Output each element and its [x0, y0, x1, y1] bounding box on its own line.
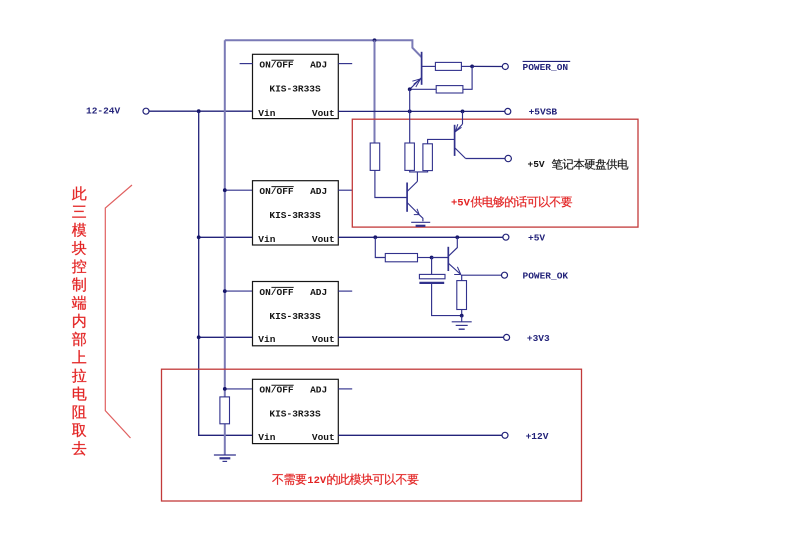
wire rail A branch to U3 Vin — [199, 336, 253, 338]
svg-text:12V: 12V — [307, 475, 327, 487]
junction +5VSB / Q1 collector — [408, 110, 412, 114]
svg-text:ON/OFF: ON/OFF — [259, 385, 294, 396]
svg-text:Vin: Vin — [258, 108, 275, 119]
svg-text:POWER_ON: POWER_ON — [523, 62, 569, 73]
svg-text:Vin: Vin — [258, 334, 275, 345]
junction R8 bottom / ground — [460, 314, 464, 318]
wire POWER_ON junction down to R2 — [463, 66, 472, 89]
transistor Q4 NPN — [448, 237, 461, 274]
wire R8 stubs — [461, 275, 463, 280]
ground below R6 — [214, 455, 236, 461]
svg-text:Vin: Vin — [258, 432, 275, 443]
resistor R8 emitter load — [457, 281, 467, 310]
resistor R3 (left, to Q3 base) — [370, 143, 380, 170]
svg-text:ON/OFF: ON/OFF — [259, 186, 294, 197]
terminal POWER_ON — [502, 64, 508, 70]
svg-text:ON/OFF: ON/OFF — [259, 60, 294, 71]
svg-text:ADJ: ADJ — [310, 186, 327, 197]
svg-text:KIS-3R33S: KIS-3R33S — [269, 409, 321, 420]
wire +3V3 net U3 Vout to terminal — [338, 336, 503, 338]
terminal POWER_OK — [502, 272, 508, 278]
wire branch down to resistor R1 — [374, 40, 376, 143]
svg-text:ON/OFF: ON/OFF — [259, 287, 294, 298]
op-amp module U1 KIS-3R33S — [253, 54, 339, 119]
wire top rail to transistor Q1 — [225, 40, 422, 57]
junction Q4 base node — [430, 256, 434, 260]
svg-text:ADJ: ADJ — [310, 385, 327, 396]
pin ON/OFF stub U1 — [240, 63, 253, 65]
wire rail A branch to U2 Vin — [199, 236, 253, 238]
junction +5V / R7 branch — [373, 235, 377, 239]
svg-text:Vin: Vin — [258, 234, 275, 245]
junction rail B / U2 ON/OFF — [223, 188, 227, 192]
svg-text:Vout: Vout — [312, 108, 335, 119]
op-amp module U4 KIS-3R33S — [253, 379, 339, 443]
svg-text:+3V3: +3V3 — [527, 333, 550, 344]
wire rail B branch to U2 ON/OFF — [225, 189, 253, 191]
junction rail B / U4 ON/OFF — [223, 387, 227, 391]
svg-text:KIS-3R33S: KIS-3R33S — [269, 311, 321, 322]
svg-text:+5VSB: +5VSB — [529, 106, 558, 117]
value label 不需要12V的此模块可以不要 (red note) — [272, 474, 283, 485]
junction rail B / U3 ON/OFF — [223, 289, 227, 293]
resistor R6 pull-down on ON/OFF bus — [220, 397, 230, 424]
transistor Q1 PNP — [410, 52, 436, 90]
junction +5V / Q4 collector — [455, 235, 459, 239]
op-amp module U2 KIS-3R33S — [253, 181, 339, 245]
svg-text:Vout: Vout — [312, 234, 335, 245]
terminal +5V notebook HD — [505, 155, 511, 161]
value label 此三模块控制端内部上拉电阻取去 (red vertical note) — [72, 186, 87, 200]
junction +5VSB / Q2 emitter — [461, 110, 465, 114]
resistor R2 feedback — [436, 86, 463, 93]
svg-text:+5V: +5V — [451, 198, 471, 210]
wire +5V down to R7 — [375, 237, 385, 257]
ground POWER_OK divider — [452, 316, 472, 330]
junction top rail / R1 branch — [373, 38, 377, 42]
junction input rail A — [197, 109, 201, 113]
wire input to Vin of module U1 — [149, 110, 252, 112]
junction POWER_ON node — [470, 65, 474, 69]
svg-text:ADJ: ADJ — [310, 287, 327, 298]
resistor R5 (right, Q2 base) — [423, 144, 433, 171]
pin ADJ stub U4 — [338, 388, 352, 390]
transistor Q3 NPN — [407, 183, 419, 215]
terminal +5VSB — [505, 108, 511, 114]
wire rail A vertical Vin bus — [199, 111, 253, 435]
wire rail B ON/OFF bus vertical — [224, 40, 226, 397]
ground Q3 emitter — [411, 222, 430, 226]
resistor R7 horizontal — [385, 254, 417, 262]
wire +12V net U4 Vout to terminal — [338, 434, 502, 436]
annotation red box (+5V optional circuit) — [352, 119, 638, 227]
junction rail A / U3 Vin — [197, 335, 201, 339]
pin ADJ stub U1 — [338, 63, 352, 65]
wire +5VSB net U1 Vout to terminal — [338, 110, 504, 112]
resistor R4 (middle) — [405, 143, 415, 170]
wire base junction to Q4 — [432, 257, 449, 259]
resistor R1 base of Q1 — [435, 62, 461, 70]
wire +5V net U2 Vout to terminal — [338, 236, 503, 238]
op-amp module U3 KIS-3R33S — [253, 282, 339, 346]
wire base junction down to capacitor C1 — [431, 258, 433, 275]
wire R5 top to Q2 base — [428, 139, 455, 143]
wire rail B branch to U3 ON/OFF — [225, 290, 253, 292]
svg-text:+5V: +5V — [528, 233, 545, 244]
svg-text:12-24V: 12-24V — [86, 106, 121, 117]
terminal +12V — [502, 432, 508, 438]
svg-text:Vout: Vout — [312, 432, 335, 443]
net label POWER_ON with overline — [523, 61, 571, 73]
wire C1 bottom to ground node — [432, 284, 462, 316]
svg-text:KIS-3R33S: KIS-3R33S — [269, 84, 321, 95]
value label +5V供电够的话可以不要 (red note) — [451, 198, 471, 210]
wire +5VSB down to R4 — [409, 111, 411, 143]
wire junction to POWER_ON terminal — [472, 65, 502, 67]
pin ADJ stub U2 — [338, 189, 352, 191]
capacitor C1 — [419, 274, 445, 283]
svg-text:POWER_OK: POWER_OK — [523, 271, 569, 282]
wire R2 to Q1 emitter junction — [410, 88, 437, 90]
wire Q3 emitter to ground — [419, 214, 423, 221]
wire R7 to Q4 base junction — [418, 257, 432, 259]
pin ADJ stub U3 — [338, 290, 352, 292]
terminal 12-24V input port — [143, 108, 149, 114]
wire Q1 emitter node down to +5VSB — [409, 89, 411, 111]
wire Q2 collector to terminal — [466, 158, 505, 160]
svg-text:KIS-3R33S: KIS-3R33S — [269, 210, 321, 221]
wire rail B branch to U4 ON/OFF — [225, 388, 253, 390]
annotation red box (+12V optional module) — [162, 369, 582, 501]
svg-text:+12V: +12V — [526, 431, 549, 442]
terminal +3V3 — [504, 334, 510, 340]
junction rail A / U2 Vin — [197, 235, 201, 239]
wire Q4 emitter to POWER_OK terminal — [461, 274, 502, 276]
annotation red bracket — [105, 185, 132, 438]
wire R1 to POWER_ON junction — [461, 65, 472, 67]
svg-text:+5V: +5V — [528, 159, 545, 170]
wire R3 bottom to Q3 base — [375, 170, 407, 197]
junction Q1 emitter node — [408, 87, 412, 91]
wire rail B below resistor R6 to ground — [224, 424, 226, 455]
wire R4 R5 bottoms joined to Q3 collector — [407, 170, 428, 191]
svg-text:Vout: Vout — [312, 334, 335, 345]
transistor Q2 PNP — [455, 111, 466, 158]
terminal +5V — [503, 234, 509, 240]
svg-text:ADJ: ADJ — [310, 60, 327, 71]
